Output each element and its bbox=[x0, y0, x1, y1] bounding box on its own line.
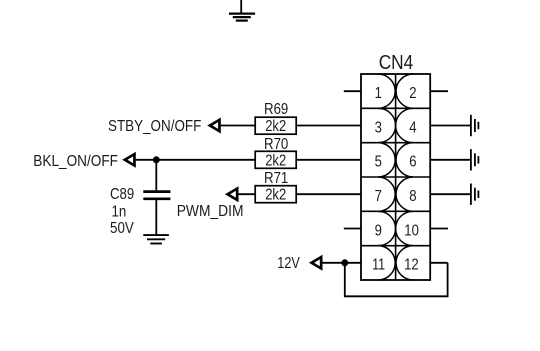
pin 3 bbox=[375, 108, 396, 142]
port PWM_DIM bbox=[177, 186, 244, 220]
svg-text:BKL_ON/OFF: BKL_ON/OFF bbox=[33, 153, 118, 170]
junction bbox=[341, 259, 348, 266]
svg-text:12V: 12V bbox=[277, 255, 300, 272]
svg-text:CN4: CN4 bbox=[379, 52, 414, 74]
svg-text:1n: 1n bbox=[112, 203, 127, 220]
pin 7 bbox=[375, 177, 396, 211]
pin 6 bbox=[396, 143, 417, 177]
svg-text:50V: 50V bbox=[110, 220, 134, 237]
pin 1 bbox=[375, 74, 396, 108]
wire bbox=[238, 193, 256, 195]
net 12V bbox=[277, 255, 322, 272]
svg-text:7: 7 bbox=[375, 188, 382, 205]
pin 4 bbox=[396, 108, 417, 142]
pin 12 bbox=[396, 246, 419, 280]
pin 5 bbox=[375, 143, 396, 177]
wire bbox=[430, 90, 448, 92]
svg-text:11: 11 bbox=[372, 257, 385, 274]
ground bbox=[471, 149, 479, 170]
pin 8 bbox=[396, 177, 417, 211]
wire bbox=[136, 159, 256, 161]
wire bbox=[430, 125, 471, 127]
ground bbox=[229, 0, 255, 21]
svg-text:6: 6 bbox=[409, 154, 416, 171]
ground bbox=[471, 184, 479, 205]
ground bbox=[143, 235, 169, 243]
wire bbox=[430, 228, 448, 230]
resistor R70 bbox=[255, 136, 296, 169]
svg-text:2k2: 2k2 bbox=[265, 187, 286, 204]
svg-text:10: 10 bbox=[404, 222, 419, 239]
svg-text:R71: R71 bbox=[264, 170, 288, 187]
port STBY_ON/OFF bbox=[108, 118, 221, 135]
svg-text:8: 8 bbox=[409, 188, 416, 205]
resistor R71 bbox=[255, 170, 296, 204]
wire bbox=[430, 159, 471, 161]
svg-text:5: 5 bbox=[375, 154, 382, 171]
wire bbox=[430, 262, 447, 264]
svg-text:PWM_DIM: PWM_DIM bbox=[177, 203, 244, 220]
svg-text:1: 1 bbox=[375, 85, 382, 102]
svg-text:C89: C89 bbox=[110, 186, 134, 203]
wire bbox=[221, 125, 256, 127]
wire bbox=[296, 193, 361, 195]
pin 9 bbox=[375, 211, 396, 245]
svg-text:4: 4 bbox=[409, 119, 416, 136]
svg-text:2: 2 bbox=[409, 85, 416, 102]
wire bbox=[344, 228, 361, 230]
resistor R69 bbox=[255, 101, 296, 135]
wire bbox=[296, 159, 361, 161]
svg-text:2k2: 2k2 bbox=[265, 118, 286, 135]
connector CN4 bbox=[361, 52, 430, 280]
pin 10 bbox=[396, 211, 419, 245]
wire bbox=[430, 193, 471, 195]
svg-text:3: 3 bbox=[375, 119, 382, 136]
wire bbox=[322, 262, 361, 264]
capacitor C89 bbox=[110, 160, 170, 237]
ground bbox=[471, 115, 479, 136]
svg-text:R69: R69 bbox=[264, 101, 288, 118]
pin 11 bbox=[372, 246, 395, 280]
svg-text:STBY_ON/OFF: STBY_ON/OFF bbox=[108, 118, 201, 135]
junction bbox=[153, 156, 160, 163]
wire bbox=[345, 263, 448, 297]
port BKL_ON/OFF bbox=[33, 152, 136, 170]
svg-text:R70: R70 bbox=[264, 136, 288, 153]
wire bbox=[296, 125, 361, 127]
wire bbox=[344, 90, 361, 92]
pin 2 bbox=[396, 74, 417, 108]
svg-text:9: 9 bbox=[375, 222, 382, 239]
svg-text:12: 12 bbox=[404, 257, 419, 274]
svg-text:2k2: 2k2 bbox=[265, 152, 286, 169]
